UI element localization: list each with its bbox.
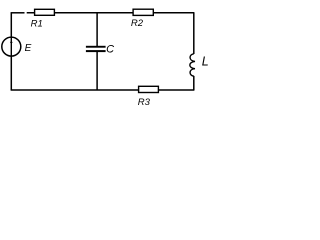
- wire middle vertical upper: [96, 13, 98, 47]
- wire right vertical upper: [193, 13, 195, 54]
- resistor R1: [35, 9, 55, 15]
- svg-text:E: E: [25, 43, 32, 54]
- wire top-left segment: [11, 12, 25, 14]
- wire middle vertical lower: [96, 52, 98, 90]
- wire left vertical: [10, 13, 12, 90]
- wire bottom: [11, 89, 195, 91]
- svg-text:C: C: [106, 44, 114, 56]
- svg-text:R2: R2: [131, 18, 144, 29]
- source E: [2, 37, 21, 56]
- svg-text:R1: R1: [31, 18, 43, 29]
- resistor R3: [139, 86, 159, 92]
- wire right vertical lower: [193, 76, 195, 90]
- inductor L: [190, 54, 195, 76]
- resistor R2: [133, 9, 153, 15]
- wire top segment to R1 and across to right corner: [27, 12, 195, 14]
- svg-text:L: L: [202, 54, 209, 68]
- capacitor C: [86, 46, 106, 52]
- svg-text:R3: R3: [138, 97, 151, 108]
